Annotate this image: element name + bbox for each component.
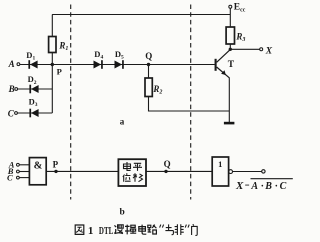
wire: B input row [18, 88, 53, 90]
svg-text:b: b [120, 208, 125, 218]
caption 路 [148, 225, 157, 234]
svg-text:P: P [57, 67, 62, 77]
power terminal Ecc [229, 5, 232, 8]
input terminal B (b) [17, 170, 20, 173]
wire: vertical bus from node P down to C row [51, 65, 53, 114]
svg-text:C: C [7, 172, 13, 182]
wire: Q down to R2 [148, 65, 150, 79]
inverter bubble [229, 170, 233, 174]
diode D3 (cathode left) [29, 109, 38, 118]
ground [224, 122, 235, 125]
diode D5 (cathode right) [115, 60, 124, 69]
wire: R2 bottom to emitter line [149, 97, 230, 112]
svg-text:=: = [245, 180, 250, 190]
svg-text:Q: Q [164, 159, 171, 169]
input terminal C (b) [17, 176, 20, 179]
svg-text:X: X [235, 180, 244, 192]
inverter box U2 [212, 157, 228, 186]
wire: collector node to output X [230, 48, 259, 50]
svg-text:DTL: DTL [99, 226, 114, 237]
wire: C input row [18, 112, 53, 114]
svg-text:C: C [8, 109, 15, 119]
caption 辑 [125, 225, 136, 235]
caption 非 [175, 224, 184, 235]
svg-text:1: 1 [88, 225, 94, 237]
resistor R3 [226, 27, 234, 44]
collector node dot [229, 48, 232, 51]
svg-text:A·B·C: A·B·C [250, 181, 286, 192]
AND gate U1 [29, 158, 46, 185]
svg-text:1: 1 [218, 159, 222, 169]
output terminal X [260, 48, 263, 51]
caption opening quote [160, 225, 164, 228]
diode D1 (cathode left) [28, 60, 37, 69]
wire: input C to AND gate [19, 177, 29, 179]
svg-text:X: X [265, 46, 273, 56]
wire: level-shift to inverter [146, 170, 212, 172]
level-shift box text 位移 [123, 173, 143, 181]
dashed partition line left [70, 5, 72, 200]
node Q junction dot (circuit a) [147, 63, 150, 66]
svg-text:A: A [8, 59, 15, 69]
svg-text:&: & [34, 160, 43, 171]
input terminal B [15, 88, 18, 91]
resistor R2 [145, 78, 152, 97]
input terminal A [17, 63, 20, 66]
wire: R3 bottom to collector node [229, 44, 231, 49]
caption 与 [165, 224, 173, 234]
diode D2 (cathode left) [29, 85, 38, 94]
output terminal (b) [262, 170, 265, 173]
wire: Ecc to R3 [229, 8, 231, 27]
svg-text:T: T [228, 60, 235, 70]
input terminal C [15, 112, 18, 115]
level-shift box text 电平 [124, 162, 143, 171]
diode D4 (cathode right) [94, 60, 103, 69]
wire: input B to AND gate [19, 171, 29, 173]
svg-text:Q: Q [145, 51, 152, 61]
svg-text:a: a [120, 116, 125, 126]
resistor R1 [49, 37, 56, 53]
node P junction dot (b) [54, 170, 57, 173]
node P junction dot [51, 63, 54, 66]
svg-text:B: B [8, 84, 15, 94]
node Q junction dot (b) [164, 170, 167, 173]
caption closing quote [185, 225, 189, 228]
svg-text:P: P [53, 159, 59, 169]
wire: input A to AND gate [19, 164, 29, 166]
input terminal A (b) [17, 163, 20, 166]
wire: inverter bubble to output terminal [233, 171, 262, 173]
wire: main input line A to transistor base [20, 64, 215, 66]
caption 电 [139, 225, 147, 235]
dashed partition line right [190, 5, 192, 200]
transistor T [216, 50, 230, 122]
transistor emitter arrowhead [221, 70, 226, 75]
wire: top supply rail [52, 14, 230, 16]
level shift box [118, 159, 146, 186]
wire: AND gate output to level-shift box [46, 170, 118, 172]
wire: R1 top stub [51, 15, 53, 37]
caption 逻 [114, 225, 123, 234]
caption 图 [75, 225, 84, 234]
caption 门 [192, 224, 198, 235]
wire: R1 bottom stub to node P [51, 53, 53, 65]
